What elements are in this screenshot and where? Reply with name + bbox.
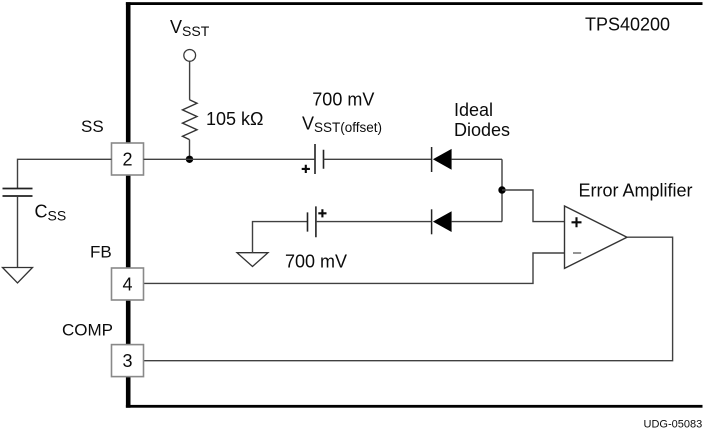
svg-text:105 kΩ: 105 kΩ (206, 109, 264, 129)
svg-text:TPS40200: TPS40200 (585, 15, 670, 35)
wire diode2 to node vertical (452, 221, 502, 223)
svg-text:3: 3 (122, 351, 132, 371)
capacitor CSS (3, 189, 33, 197)
wire pin2 to battery1 (144, 158, 315, 160)
wire capacitor to ground (17, 197, 19, 267)
svg-text:SS: SS (81, 117, 104, 136)
wire VSST terminal to resistor (189, 61, 191, 100)
svg-text:700 mV: 700 mV (285, 252, 347, 272)
battery V1 VSST(offset) plates (315, 144, 324, 174)
junction dot node (498, 186, 505, 193)
diode D2 cathode bar (431, 209, 433, 234)
ground symbol for battery2 (237, 253, 268, 267)
resistor 105k zigzag (183, 100, 198, 140)
svg-text:2: 2 (122, 150, 132, 170)
pin label SS (81, 117, 104, 136)
label 700 mV bottom (285, 252, 347, 272)
capacitor label CSS (35, 202, 67, 224)
svg-text:Error Amplifier: Error Amplifier (579, 181, 693, 201)
label 700 mV top (312, 90, 374, 110)
wire diode1 to node (452, 158, 502, 160)
pin label COMP (62, 321, 113, 340)
diode D2 triangle (433, 211, 452, 232)
pin box 2 (112, 143, 144, 175)
battery V1 plus sign (302, 165, 310, 173)
wire battery2 to diode2 (316, 221, 431, 223)
wire vertical through node (501, 159, 503, 221)
diode D1 cathode bar (431, 147, 433, 172)
ground symbol left (3, 268, 33, 284)
battery V2 plus sign (318, 209, 326, 217)
IC boundary left border (126, 2, 131, 408)
svg-text:COMP: COMP (62, 321, 113, 340)
diode D1 triangle (433, 149, 452, 170)
wire ground2 to battery2 (253, 222, 308, 253)
svg-text:UDG-05083: UDG-05083 (644, 419, 703, 431)
svg-text:Ideal: Ideal (454, 100, 493, 120)
svg-text:Diodes: Diodes (454, 120, 510, 140)
wire node to error amp plus input (502, 190, 564, 222)
wire pin2 to CSS capacitor (18, 159, 112, 188)
wire resistor to node (189, 140, 191, 160)
op-amp minus input sign (573, 252, 581, 254)
wire error amp minus input to FB (144, 253, 565, 283)
svg-text:4: 4 (122, 275, 132, 295)
battery V2 700mV plates (308, 206, 316, 237)
pin label FB (90, 243, 112, 262)
wire battery1 to diode1 (324, 158, 432, 160)
ideal diodes label (454, 100, 510, 140)
op-amp error amplifier triangle (565, 206, 628, 268)
wire op-amp output to pin3 (144, 237, 673, 361)
node VSST label (170, 17, 210, 39)
op-amp plus input sign (572, 217, 582, 227)
label VSST(offset) (302, 114, 382, 136)
pin box 3 (112, 345, 144, 377)
IC boundary top border (126, 2, 703, 5)
label TPS40200 (585, 15, 670, 35)
pin box 4 (112, 268, 144, 300)
junction dot at resistor/SS wire (186, 156, 193, 163)
resistor value label 105 kOhm (206, 109, 264, 129)
VSST terminal circle (184, 50, 196, 62)
error amplifier label (579, 181, 693, 201)
IC boundary bottom border (126, 405, 703, 408)
svg-text:FB: FB (90, 243, 112, 262)
label UDG-05083 (644, 419, 703, 431)
svg-text:700 mV: 700 mV (312, 90, 374, 110)
